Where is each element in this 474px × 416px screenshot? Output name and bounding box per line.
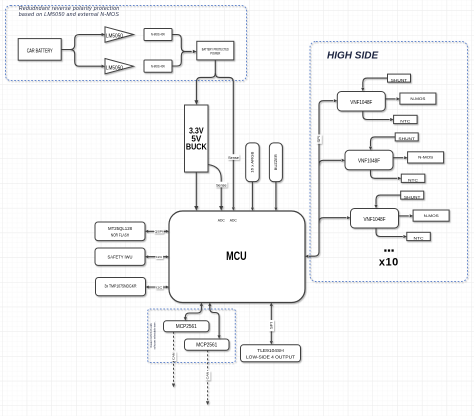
wire battery to lower LM5050 <box>70 50 105 68</box>
note: x10 channel count <box>379 257 399 269</box>
block CAR BATTERY <box>18 39 61 61</box>
wire SHUNT 3 to VNF1048F 3 <box>374 195 400 208</box>
wire 16 x ARGB to MCU <box>251 182 254 211</box>
wire SHUNT 2 to VNF1048F 2 <box>369 137 395 150</box>
svg-text:SHUNT: SHUNT <box>398 137 416 141</box>
wire VNF1048F 2 to N-MOS 2 <box>393 156 408 159</box>
svg-text:N-MOS 40V: N-MOS 40V <box>151 64 166 68</box>
svg-text:N-MOS 40V: N-MOS 40V <box>151 33 166 37</box>
svg-text:CAR BATTERY: CAR BATTERY <box>27 49 53 55</box>
svg-text:SPI: SPI <box>317 135 321 142</box>
svg-text:BUCK: BUCK <box>186 142 207 152</box>
block MCP2561 (CAN1 transceiver) <box>185 339 230 350</box>
label I2C (safety) <box>156 254 164 259</box>
wire VNF1048F 1 to NTC 1 <box>363 111 394 121</box>
label SPI (high side bus) <box>316 135 321 144</box>
block SAFETY IWU <box>95 248 145 265</box>
svg-text:3x TMP1075NDGKR: 3x TMP1075NDGKR <box>105 284 137 289</box>
container: CAN transceivers group <box>148 309 236 363</box>
wire MCU to MCP2561 CAN0 <box>184 303 203 321</box>
block N-MOS (upper pass transistor) <box>144 29 172 41</box>
svg-text:BUZZER: BUZZER <box>274 154 278 170</box>
node BATTERY PROTECTED POWER <box>197 41 234 60</box>
svg-text:x10: x10 <box>379 257 399 269</box>
svg-text:MCU: MCU <box>226 249 247 263</box>
block N-MOS (lower pass transistor) <box>144 60 172 72</box>
svg-text:N-MOS: N-MOS <box>424 214 440 218</box>
note: reverse polarity protection caption <box>19 6 120 18</box>
wire I2C safety to MCU <box>145 255 169 258</box>
svg-text:ADC: ADC <box>230 219 238 223</box>
svg-text:MT25QL128: MT25QL128 <box>108 226 133 231</box>
svg-text:NTC: NTC <box>400 120 411 124</box>
svg-text:16 x ARGB: 16 x ARGB <box>251 151 255 173</box>
svg-text:SHUNT: SHUNT <box>391 78 409 82</box>
wire CAN1 bus (dashed) <box>206 350 209 405</box>
svg-text:NOR FLASH: NOR FLASH <box>111 232 129 237</box>
container: HIGH SIDE group <box>310 42 468 282</box>
ideal diode controller LM5050 (upper) <box>105 27 134 42</box>
wire VNF1048F 2 to NTC 2 <box>371 170 402 180</box>
label QSPI <box>154 229 164 234</box>
block BUZZER <box>269 143 282 182</box>
block NTC 2 <box>401 174 425 182</box>
label SPI (low-side driver) <box>269 320 274 331</box>
block 3x TMP1075NDGKR <box>96 278 146 296</box>
wire SPI bus branch to VNF1048F 3 <box>319 216 351 222</box>
wire lower LM5050 to lower N-MOS <box>134 65 145 67</box>
svg-text:CAN: CAN <box>206 372 210 380</box>
block SHUNT 2 <box>395 133 418 141</box>
wire CAN0 bus (dashed) <box>172 332 175 388</box>
svg-text:N-MOS: N-MOS <box>418 156 434 160</box>
label Sense (battery sense wire) <box>228 154 240 160</box>
block N-MOS 2 <box>408 152 444 163</box>
block MCU <box>169 211 305 303</box>
svg-text:NTC: NTC <box>408 179 419 183</box>
wire QSPI flash to MCU <box>145 230 169 233</box>
block SHUNT 3 <box>401 191 424 199</box>
wire MCU SPI bus to VNF1048F 1 <box>305 99 337 258</box>
block VNF1048F U2 <box>345 150 393 170</box>
svg-text:I2C: I2C <box>156 255 163 259</box>
block NTC 1 <box>394 115 418 123</box>
wire MCU SPI to TLE9104SH <box>270 303 273 345</box>
label CAN1 <box>205 371 210 380</box>
svg-text:NTC: NTC <box>414 237 425 241</box>
note: HIGH SIDE title <box>327 50 378 61</box>
svg-text:MCP2561: MCP2561 <box>196 343 217 349</box>
wire VNF1048F 1 to N-MOS 1 <box>385 97 400 100</box>
svg-text:I2C: I2C <box>156 285 163 289</box>
note: ellipsis more channels <box>384 249 393 251</box>
svg-text:MCP2561: MCP2561 <box>176 324 197 330</box>
wire SPI bus branch to VNF1048F 2 <box>319 159 345 165</box>
wire upper N-MOS to battery protected power <box>172 35 192 52</box>
svg-text:CAN: CAN <box>172 353 176 361</box>
block N-MOS 3 <box>413 210 449 221</box>
svg-text:SHUNT: SHUNT <box>404 195 422 199</box>
svg-text:Sense: Sense <box>216 184 227 188</box>
svg-text:LM5050: LM5050 <box>106 65 123 71</box>
wire SHUNT 1 to VNF1048F 1 <box>361 78 387 91</box>
block MT25QL128 NOR FLASH <box>95 222 145 241</box>
svg-text:Sense: Sense <box>228 156 239 160</box>
svg-text:SAFETY IWU: SAFETY IWU <box>108 254 133 259</box>
svg-text:based on LM5050 and external N: based on LM5050 and external N-MOS <box>19 12 120 18</box>
wire buck power to MCU <box>194 172 198 211</box>
wire I2C temperature sensors to MCU <box>146 286 170 289</box>
wire battery to upper LM5050 <box>61 33 105 50</box>
wire buck sense to MCU ADC <box>208 165 223 211</box>
label Sense (buck sense wire) <box>216 182 228 188</box>
block TLE9104SH LOW-SIDE 4 OUTPUT <box>241 345 301 362</box>
svg-text:LOW-SIDE 4 OUTPUT: LOW-SIDE 4 OUTPUT <box>246 355 295 360</box>
block 3.3V 5V BUCK <box>185 105 209 172</box>
block N-MOS 1 <box>400 93 436 104</box>
wire VNF1048F 3 to NTC 3 <box>376 228 407 238</box>
block NTC 3 <box>407 232 431 240</box>
note: CAN group caption (rotated) <box>150 321 156 349</box>
svg-text:software selectable term.: software selectable term. <box>153 321 156 349</box>
label I2C (temp sensors) <box>156 285 164 290</box>
block SHUNT 1 <box>388 74 411 82</box>
svg-text:VNF1048F: VNF1048F <box>358 159 380 165</box>
svg-text:HIGH SIDE: HIGH SIDE <box>327 50 378 61</box>
svg-text:POWER: POWER <box>210 52 220 56</box>
block VNF1048F U3 <box>351 209 399 229</box>
wire lower N-MOS to battery protected power <box>172 50 197 66</box>
svg-text:N-MOS: N-MOS <box>410 97 426 101</box>
wire battery protected power to buck <box>194 60 215 105</box>
wire MCU to MCP2561 CAN1 <box>208 303 221 339</box>
svg-text:LM5050: LM5050 <box>106 34 123 40</box>
wire buzzer to MCU <box>274 182 277 211</box>
svg-text:TLE9104SH: TLE9104SH <box>257 348 284 353</box>
wire battery sense to MCU ADC <box>215 73 235 211</box>
block 16 x ARGB <box>246 143 260 182</box>
svg-text:QSPI: QSPI <box>155 230 164 234</box>
svg-text:ADC: ADC <box>218 219 226 223</box>
label CAN0 <box>171 352 176 361</box>
svg-text:VNF1048F: VNF1048F <box>350 100 372 106</box>
container: reverse polarity protection group <box>6 6 247 81</box>
block MCP2561 (CAN0 transceiver) <box>164 321 210 332</box>
block VNF1048F U1 <box>337 92 385 112</box>
svg-text:SPI: SPI <box>269 322 273 329</box>
svg-text:Redudndant reverse polarity pr: Redudndant reverse polarity protection <box>19 6 120 12</box>
wire upper LM5050 to upper N-MOS <box>134 34 145 36</box>
svg-text:VNF1048F: VNF1048F <box>364 217 386 223</box>
ideal diode controller LM5050 (lower) <box>105 59 134 74</box>
wire VNF1048F 3 to N-MOS 3 <box>399 214 414 217</box>
